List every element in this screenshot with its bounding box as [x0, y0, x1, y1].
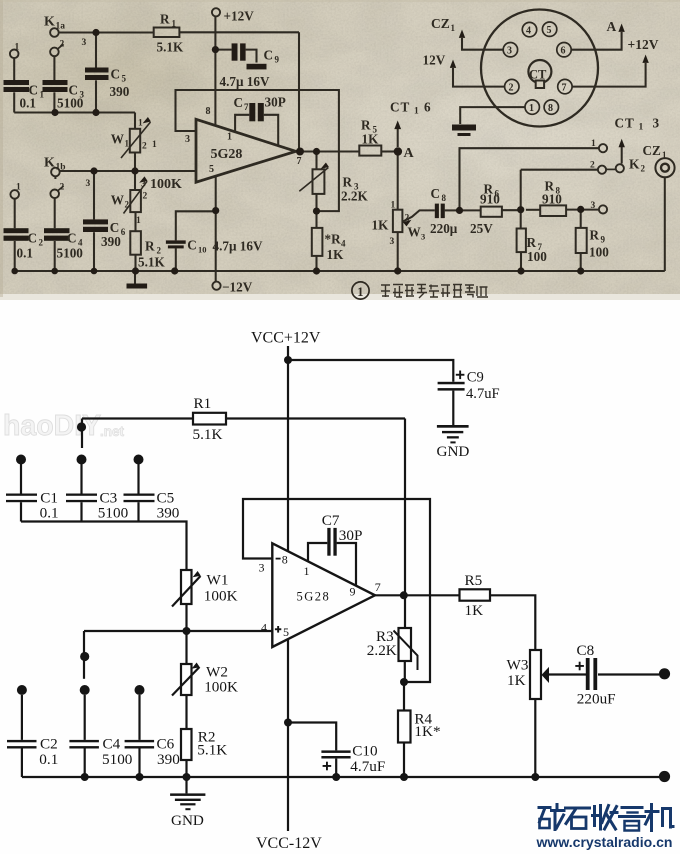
svg-text:7: 7: [297, 156, 302, 167]
svg-text:4.7μ 16V: 4.7μ 16V: [213, 239, 263, 254]
svg-text:W1: W1: [207, 572, 229, 589]
svg-text:C: C: [110, 220, 120, 235]
svg-text:1K: 1K: [362, 132, 380, 147]
svg-text:CT: CT: [390, 100, 410, 115]
svg-text:−12V: −12V: [222, 280, 253, 295]
svg-text:2: 2: [405, 214, 410, 224]
svg-text:1: 1: [227, 132, 232, 143]
svg-text:8: 8: [442, 193, 447, 203]
svg-text:GND: GND: [171, 812, 204, 829]
svg-text:5: 5: [283, 625, 289, 639]
svg-text:5100: 5100: [57, 96, 84, 111]
svg-text:910: 910: [480, 192, 500, 207]
svg-text:C9: C9: [467, 370, 484, 386]
svg-text:1: 1: [138, 119, 143, 129]
svg-text:1: 1: [172, 19, 177, 29]
svg-text:C: C: [234, 95, 244, 110]
svg-text:R: R: [361, 118, 371, 133]
svg-text:910: 910: [542, 192, 562, 207]
svg-text:100K: 100K: [150, 177, 182, 192]
svg-text:1: 1: [16, 183, 21, 193]
svg-text:K: K: [629, 156, 640, 171]
svg-text:R: R: [145, 239, 155, 254]
svg-text:C: C: [28, 231, 38, 246]
svg-text:C: C: [111, 67, 121, 82]
svg-text:R: R: [590, 228, 600, 243]
svg-text:C: C: [264, 48, 274, 63]
svg-text:7: 7: [562, 83, 567, 94]
svg-text:R1: R1: [194, 395, 212, 412]
svg-text:C8: C8: [577, 642, 595, 659]
svg-text:C: C: [187, 238, 197, 253]
svg-text:1: 1: [662, 150, 667, 160]
svg-text:1: 1: [391, 201, 396, 211]
svg-text:1: 1: [529, 103, 534, 114]
svg-text:220μ: 220μ: [430, 221, 458, 236]
svg-text:9: 9: [601, 235, 606, 245]
svg-text:VCC+12V: VCC+12V: [251, 330, 321, 347]
svg-text:CT: CT: [615, 116, 635, 131]
svg-text:K: K: [44, 15, 55, 30]
svg-text:C10: C10: [352, 742, 378, 759]
svg-text:3: 3: [86, 179, 91, 189]
svg-text:30P: 30P: [339, 527, 363, 544]
svg-text:7: 7: [244, 102, 249, 112]
svg-text:1: 1: [414, 107, 419, 117]
svg-text:100: 100: [527, 249, 547, 264]
svg-text:10: 10: [198, 245, 207, 255]
svg-text:9: 9: [275, 55, 280, 65]
svg-text:390: 390: [110, 84, 130, 99]
svg-text:W: W: [408, 225, 421, 240]
svg-text:4.7uF: 4.7uF: [350, 758, 385, 775]
svg-text:+12V: +12V: [224, 8, 255, 23]
svg-text:2: 2: [143, 192, 148, 202]
svg-text:5: 5: [209, 164, 214, 175]
svg-text:1K: 1K: [327, 247, 345, 262]
svg-text:0.1: 0.1: [40, 505, 59, 522]
svg-text:8: 8: [206, 106, 211, 117]
svg-text:5G28: 5G28: [211, 147, 243, 162]
svg-text:6: 6: [561, 46, 566, 57]
svg-text:5.1K: 5.1K: [197, 742, 227, 759]
svg-text:6: 6: [424, 100, 431, 115]
svg-text:CT: CT: [529, 68, 547, 82]
svg-text:3: 3: [82, 38, 87, 48]
svg-text:8: 8: [282, 553, 288, 567]
svg-text:R: R: [160, 12, 170, 27]
svg-text:100K: 100K: [204, 679, 238, 696]
svg-text:1K: 1K: [507, 672, 526, 689]
svg-text:2: 2: [60, 40, 65, 50]
svg-text:3: 3: [185, 134, 190, 145]
svg-text:2: 2: [39, 238, 44, 248]
svg-text:4: 4: [261, 621, 267, 635]
svg-text:CZ: CZ: [431, 16, 450, 31]
svg-text:0.1: 0.1: [17, 246, 33, 261]
svg-text:0.1: 0.1: [20, 96, 36, 111]
svg-text:30P: 30P: [265, 95, 286, 110]
svg-text:3: 3: [141, 180, 146, 190]
svg-text:5100: 5100: [57, 246, 84, 261]
svg-text:1: 1: [639, 123, 644, 133]
svg-text:VCC-12V: VCC-12V: [256, 835, 322, 852]
svg-text:*R: *R: [325, 232, 342, 247]
svg-text:5.1K: 5.1K: [138, 255, 165, 270]
svg-text:5100: 5100: [98, 505, 129, 522]
svg-text:A: A: [607, 19, 617, 34]
svg-text:3: 3: [591, 201, 596, 211]
svg-text:2.2K: 2.2K: [341, 189, 368, 204]
svg-text:7: 7: [375, 580, 381, 594]
svg-text:1: 1: [136, 216, 141, 226]
svg-text:9: 9: [350, 585, 356, 599]
svg-text:5G28: 5G28: [297, 589, 331, 603]
svg-text:1b: 1b: [56, 163, 66, 173]
svg-text:5: 5: [547, 25, 552, 36]
svg-text:390: 390: [101, 234, 121, 249]
svg-text:2: 2: [590, 161, 595, 171]
svg-text:W: W: [111, 193, 124, 208]
svg-text:1: 1: [451, 23, 456, 33]
svg-text:1K: 1K: [372, 218, 390, 233]
svg-text:4.7uF: 4.7uF: [466, 386, 500, 402]
svg-text:R5: R5: [465, 572, 483, 589]
svg-text:2: 2: [509, 83, 514, 94]
svg-text:100: 100: [589, 245, 609, 260]
svg-text:C: C: [67, 231, 77, 246]
svg-text:2: 2: [142, 142, 147, 152]
svg-text:.net: .net: [100, 424, 125, 439]
svg-text:4.7μ 16V: 4.7μ 16V: [220, 74, 270, 89]
svg-text:2: 2: [125, 200, 130, 210]
svg-text:K: K: [44, 156, 55, 171]
svg-text:1: 1: [40, 90, 45, 100]
svg-text:C: C: [431, 186, 441, 201]
svg-text:1: 1: [304, 564, 310, 578]
svg-text:1: 1: [125, 139, 130, 149]
svg-text:CZ: CZ: [643, 143, 662, 158]
svg-text:3: 3: [507, 46, 512, 57]
svg-text:3: 3: [653, 116, 660, 131]
svg-text:W: W: [111, 132, 124, 147]
svg-text:2: 2: [60, 183, 65, 193]
svg-text:5.1K: 5.1K: [157, 39, 184, 54]
svg-text:390: 390: [157, 751, 180, 768]
svg-text:R: R: [527, 235, 537, 250]
svg-text:W3: W3: [507, 657, 529, 674]
svg-text:3: 3: [421, 232, 425, 242]
svg-text:12V: 12V: [423, 53, 446, 68]
svg-text:1K: 1K: [465, 602, 484, 619]
svg-text:2.2K: 2.2K: [367, 642, 397, 659]
svg-text:2: 2: [641, 163, 646, 173]
svg-text:C7: C7: [322, 512, 340, 529]
svg-text:+12V: +12V: [628, 37, 659, 52]
svg-text:R: R: [343, 175, 353, 190]
svg-text:www.crystalradio.cn: www.crystalradio.cn: [535, 834, 672, 850]
svg-text:A: A: [404, 146, 415, 161]
svg-text:1: 1: [15, 43, 20, 53]
svg-text:1: 1: [357, 285, 363, 299]
svg-text:3: 3: [259, 561, 265, 575]
svg-text:3: 3: [390, 237, 395, 247]
svg-text:390: 390: [157, 505, 180, 522]
svg-text:1: 1: [591, 139, 596, 149]
svg-text:25V: 25V: [470, 221, 493, 236]
svg-text:8: 8: [548, 103, 553, 114]
svg-text:6: 6: [121, 227, 126, 237]
svg-text:haoDIY: haoDIY: [3, 410, 101, 442]
svg-text:1a: 1a: [56, 22, 66, 32]
svg-text:1: 1: [152, 140, 157, 150]
svg-text:4: 4: [526, 26, 531, 37]
svg-text:220uF: 220uF: [577, 691, 616, 708]
svg-text:0.1: 0.1: [39, 751, 58, 768]
svg-text:GND: GND: [437, 443, 470, 460]
svg-text:1K*: 1K*: [414, 723, 440, 740]
svg-text:5100: 5100: [102, 751, 133, 768]
svg-text:5.1K: 5.1K: [193, 426, 223, 443]
svg-text:100K: 100K: [204, 588, 238, 605]
svg-text:5: 5: [122, 74, 127, 84]
